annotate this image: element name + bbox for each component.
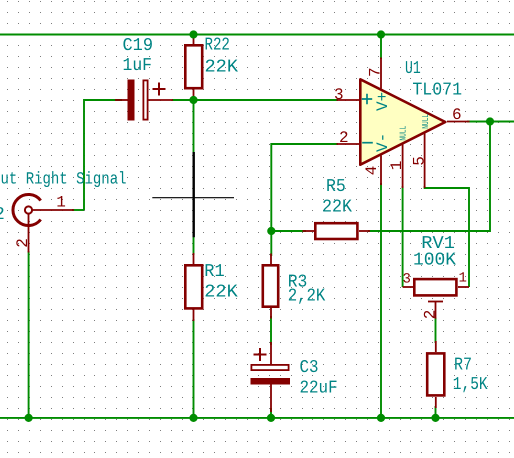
opamp plus mark: [362, 94, 372, 104]
junction output node: [486, 117, 494, 125]
wire RV1 wiper to R7: [435, 318, 437, 344]
svg-text:1: 1: [388, 161, 406, 171]
svg-text:NULL: NULL: [421, 114, 431, 129]
junction on top rail at pin7: [377, 30, 385, 38]
svg-text:C3: C3: [300, 358, 319, 378]
svg-text:100K: 100K: [413, 251, 456, 271]
pin 6 lead: [447, 121, 470, 123]
pin number 6: [452, 106, 462, 124]
label 1,5K: [453, 375, 488, 395]
label RV1: [421, 234, 455, 254]
label P2 (clipped): [0, 205, 5, 225]
wire R3 to C3: [270, 316, 272, 345]
pin number 1: [388, 161, 406, 171]
pin 7 lead: [380, 58, 382, 89]
resistor R3: [263, 254, 278, 319]
pin number 7: [367, 67, 385, 77]
wire R5 right to output node: [368, 122, 490, 232]
pin 1 lead: [402, 144, 404, 188]
svg-text:1,5K: 1,5K: [453, 375, 488, 395]
wire R1 to bottom rail: [193, 319, 195, 418]
svg-text:U1: U1: [405, 59, 421, 79]
wire bottom rail: [0, 417, 514, 419]
wire output to right edge: [467, 121, 514, 123]
svg-text:V-: V-: [374, 133, 392, 152]
junction node B: [267, 227, 275, 235]
resistor R7: [427, 341, 444, 408]
svg-text:R5: R5: [326, 177, 346, 197]
svg-text:R22: R22: [205, 36, 230, 56]
junction bottom rail pin4: [377, 414, 385, 422]
svg-text:ut Right Signal: ut Right Signal: [1, 171, 127, 190]
resistor R1: [185, 253, 202, 321]
label R22: [205, 36, 230, 56]
wire node A horizontal (C19/R22/R1 to pin3): [172, 99, 338, 101]
label R7: [454, 356, 472, 376]
opamp V- name: [374, 133, 392, 152]
cursor crosshair: [152, 152, 234, 237]
capacitor C3: [251, 342, 291, 412]
svg-text:22uF: 22uF: [300, 379, 338, 399]
pin number 4: [363, 166, 381, 176]
wire from C19 to connector (left vertical + horizontal): [84, 100, 122, 210]
svg-text:2,2K: 2,2K: [288, 287, 326, 307]
svg-text:1: 1: [56, 194, 66, 212]
svg-text:2: 2: [422, 310, 440, 320]
label 100K: [413, 251, 456, 271]
junction node A: [189, 96, 197, 104]
svg-text:R7: R7: [454, 356, 472, 376]
wire C3 to bottom rail: [270, 408, 272, 418]
pin 3 RV1: [403, 272, 411, 288]
wire node B down to R3: [270, 231, 272, 256]
op-amp U1: [360, 79, 445, 164]
svg-text:2: 2: [0, 205, 5, 225]
pin 2 lead: [337, 143, 360, 145]
svg-text:6: 6: [452, 106, 462, 124]
label 1uF: [123, 56, 153, 76]
potentiometer RV1: [403, 279, 469, 319]
wire connector pin1 stub: [72, 209, 84, 211]
label TL071: [412, 81, 462, 101]
label 22K R1: [204, 283, 238, 303]
label R3: [288, 272, 308, 292]
svg-text:22K: 22K: [205, 57, 239, 77]
wire top V+ rail: [0, 34, 514, 36]
junction bottom rail R1: [189, 414, 197, 422]
opamp minus mark: [362, 142, 373, 144]
label 22K R5: [322, 198, 352, 218]
junction bottom rail R7: [431, 414, 439, 422]
resistor R22: [185, 35, 202, 101]
wire node B to R5 left: [271, 230, 306, 232]
svg-text:7: 7: [367, 67, 385, 77]
label C19: [123, 36, 154, 56]
wire pin5 to RV1 pin1: [425, 186, 469, 287]
opamp NULL name pin1: [398, 126, 408, 141]
label U1: [405, 59, 421, 79]
pin 4 lead: [380, 156, 382, 186]
svg-text:V+: V+: [374, 92, 392, 111]
wire pin2 to R5/R3 node: [271, 144, 338, 231]
opamp V+ name: [374, 92, 392, 111]
pin number 2: [339, 129, 349, 147]
junction bottom rail C3: [267, 414, 275, 422]
wire connector pin2 to bottom rail: [28, 251, 30, 418]
capacitor C19: [115, 80, 173, 121]
label C3: [300, 358, 319, 378]
wire R7 to bottom rail: [435, 406, 437, 418]
svg-text:NULL: NULL: [398, 126, 408, 141]
label R1: [204, 262, 224, 282]
svg-text:3: 3: [334, 86, 344, 104]
svg-text:1uF: 1uF: [123, 56, 153, 76]
net label ut Right Signal: [1, 171, 127, 190]
wire node A down to R1: [193, 100, 195, 255]
svg-text:4: 4: [363, 166, 381, 176]
svg-text:2: 2: [14, 238, 32, 248]
svg-text:TL071: TL071: [412, 81, 462, 101]
wire pin1 down to RV1 pin3: [402, 186, 404, 287]
label 2,2K: [288, 287, 326, 307]
pin number 5: [410, 156, 428, 166]
pin 1 P2: [56, 194, 66, 212]
wire pin4 to bottom rail: [380, 183, 382, 418]
svg-text:2: 2: [339, 129, 349, 147]
pin 1 RV1: [459, 271, 467, 287]
junction on top rail at R22: [189, 30, 197, 38]
junction bottom rail connector: [25, 414, 33, 422]
label 22K R22: [205, 57, 239, 77]
pin 5 lead: [424, 133, 426, 188]
pin 2 RV1: [422, 310, 440, 320]
svg-text:22K: 22K: [322, 198, 352, 218]
svg-text:5: 5: [410, 156, 428, 166]
svg-text:1: 1: [459, 271, 467, 287]
pin 3 lead: [337, 99, 360, 101]
svg-text:3: 3: [403, 272, 411, 288]
connector P2: [13, 194, 74, 252]
resistor R5: [303, 223, 371, 239]
svg-text:22K: 22K: [204, 283, 238, 303]
pin number 3: [334, 86, 344, 104]
pin 2 P2: [14, 238, 32, 248]
wire pin7 to top rail: [380, 35, 382, 60]
label R5: [326, 177, 346, 197]
label 22uF: [300, 379, 338, 399]
svg-text:R1: R1: [204, 262, 224, 282]
svg-text:C19: C19: [123, 36, 154, 56]
opamp NULL name pin5: [421, 114, 431, 129]
